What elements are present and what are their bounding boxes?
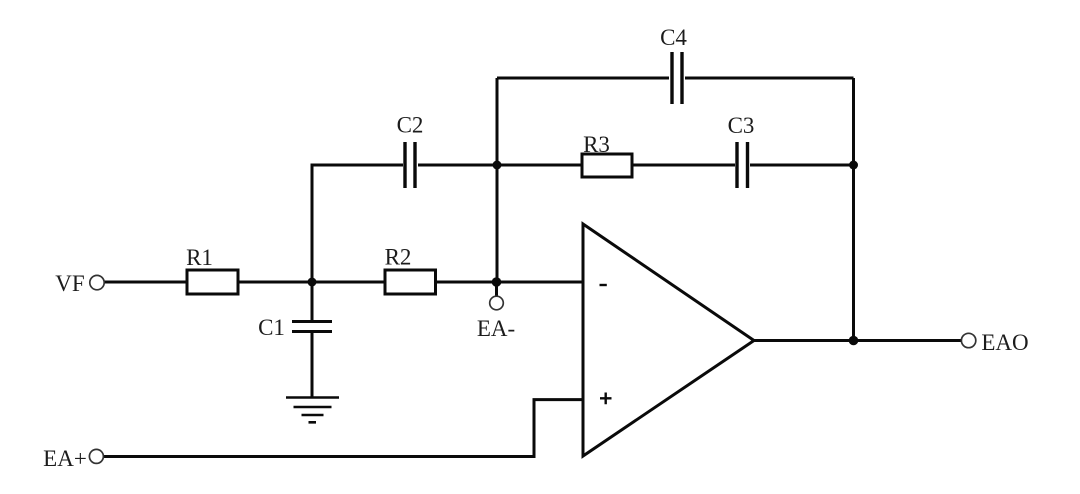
wire EA+ terminal to op-amp non-inverting input — [104, 400, 584, 457]
wire R3 to C3 — [632, 164, 735, 167]
junction EA- node on input wire — [492, 277, 502, 287]
capacitor C3 — [737, 142, 748, 188]
terminal VF — [90, 275, 104, 289]
junction EAO node on output wire — [849, 336, 859, 346]
svg-text:C1: C1 — [258, 315, 285, 340]
terminal EA- — [490, 296, 504, 310]
svg-text:EA+: EA+ — [43, 446, 87, 471]
capacitor C2 — [405, 142, 415, 188]
terminal EAO — [961, 333, 975, 347]
wire top feedback right segment (C4 to EAO node) — [685, 77, 854, 80]
op-amp inverting input minus sign — [600, 284, 607, 286]
wire right vertical (top corner down to output) — [852, 78, 855, 341]
wire C1 to ground — [311, 333, 314, 397]
wire EA- terminal stub — [495, 282, 498, 296]
svg-text:R3: R3 — [583, 132, 610, 157]
wire C2 to EA- vertical — [418, 164, 497, 167]
wire top feedback left segment (EA- node to C4) — [497, 77, 669, 80]
capacitor C4 — [672, 52, 682, 104]
terminal EA+ — [89, 449, 103, 463]
resistor R1 — [187, 270, 238, 294]
svg-text:R2: R2 — [385, 245, 412, 270]
wire EA- node to R3 — [497, 164, 582, 167]
junction EAO node at feedback level — [849, 161, 858, 170]
junction EA- node at feedback level — [493, 161, 502, 170]
svg-text:EA-: EA- — [477, 316, 515, 341]
svg-text:C4: C4 — [660, 25, 687, 50]
wire VF terminal to R1 — [104, 281, 187, 284]
svg-text:VF: VF — [55, 271, 84, 296]
junction node A (R1/R2/C1/C2) — [308, 278, 317, 287]
wire op-amp output to EAO terminal — [754, 339, 961, 342]
wire R1 to node A — [238, 281, 385, 284]
wire node A down to C1 — [311, 282, 314, 320]
wire EA- node to op-amp inverting input — [497, 281, 583, 284]
svg-text:EAO: EAO — [981, 330, 1028, 355]
resistor R2 — [385, 270, 436, 294]
capacitor C1 — [292, 322, 332, 332]
wire EA- vertical (top wire down to inverting input) — [496, 78, 499, 282]
svg-text:C3: C3 — [728, 113, 755, 138]
wire R2 to EA- node — [436, 281, 498, 284]
op-amp U1 triangle — [583, 224, 754, 456]
resistor R3 — [582, 154, 632, 177]
op-amp non-inverting input plus sign — [600, 393, 612, 405]
wire C3 to EAO vertical — [750, 164, 854, 167]
wire C2 branch left vertical (node A up to C2 level) — [312, 165, 403, 282]
svg-text:R1: R1 — [186, 245, 213, 270]
ground symbol — [286, 398, 339, 423]
svg-text:C2: C2 — [397, 113, 424, 138]
